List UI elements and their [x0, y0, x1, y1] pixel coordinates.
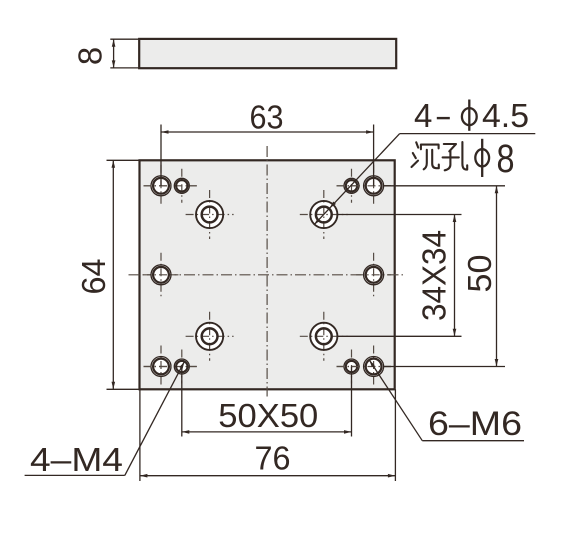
svg-text:4: 4 [414, 97, 432, 134]
leader line callout 4-M4 [25, 361, 186, 476]
leader line callout 6-M6 [368, 359, 524, 441]
M6 tapped hole bottom-right [337, 346, 392, 388]
svg-text:6–M6: 6–M6 [428, 405, 522, 443]
dimension 76 line [140, 474, 396, 478]
side view plate outline [139, 39, 396, 68]
counterbored hole dia4.5/dia8 bottom-right [300, 312, 348, 361]
dimension 63 line [161, 130, 374, 134]
dimension 50X50 line [182, 430, 352, 434]
dimension 76 extension lines [140, 389, 396, 481]
svg-text:4.5: 4.5 [482, 97, 529, 134]
M6 tapped hole top-left [144, 165, 197, 207]
M4 tapped hole bottom-left [144, 350, 197, 384]
svg-text:8: 8 [497, 137, 515, 181]
svg-text:50X50: 50X50 [218, 397, 318, 434]
dimension 63 extension lines [161, 125, 374, 186]
dimension 34X34 line [453, 215, 457, 337]
main plate outline [140, 160, 395, 389]
M6 tapped hole bottom-left [144, 346, 197, 388]
dimension 50 extension lines [384, 186, 505, 367]
svg-text:64: 64 [75, 259, 112, 295]
dimension 64 extension lines [107, 160, 140, 389]
plate vertical centerline [266, 146, 268, 397]
dimension 8 line [112, 39, 116, 68]
svg-text:4–M4: 4–M4 [30, 441, 123, 478]
M4 tapped hole top-left [144, 169, 197, 203]
callout text 4-dia4.5 [414, 97, 529, 134]
dimension 50X50 extension lines [182, 367, 352, 437]
M6 tapped hole middle-right [356, 253, 391, 297]
dimension 8 extension lines [110, 39, 139, 68]
counterbored hole dia4.5/dia8 top-right [300, 190, 348, 239]
callout text counterbore(chen-kong) dia8 [412, 137, 515, 181]
M6 tapped hole top-right [337, 165, 392, 207]
dimension 34X34 extension lines [338, 215, 462, 337]
svg-text:76: 76 [255, 440, 291, 477]
svg-text:50: 50 [461, 255, 498, 293]
dimension 64 line [112, 160, 116, 389]
counterbored hole dia4.5/dia8 top-left [186, 190, 234, 239]
plate horizontal centerline [129, 274, 407, 276]
svg-text:63: 63 [250, 99, 284, 136]
M6 tapped hole middle-left [144, 253, 179, 297]
svg-text:34X34: 34X34 [416, 230, 453, 321]
counterbored hole dia4.5/dia8 bottom-left [186, 312, 234, 361]
leader line callout 4-dia4.5 counterbore dia8 [313, 134, 536, 227]
dimension 50 line [495, 186, 499, 367]
M4 tapped hole bottom-right [337, 350, 392, 384]
M4 tapped hole top-right [337, 169, 392, 203]
svg-text:8: 8 [72, 47, 109, 65]
